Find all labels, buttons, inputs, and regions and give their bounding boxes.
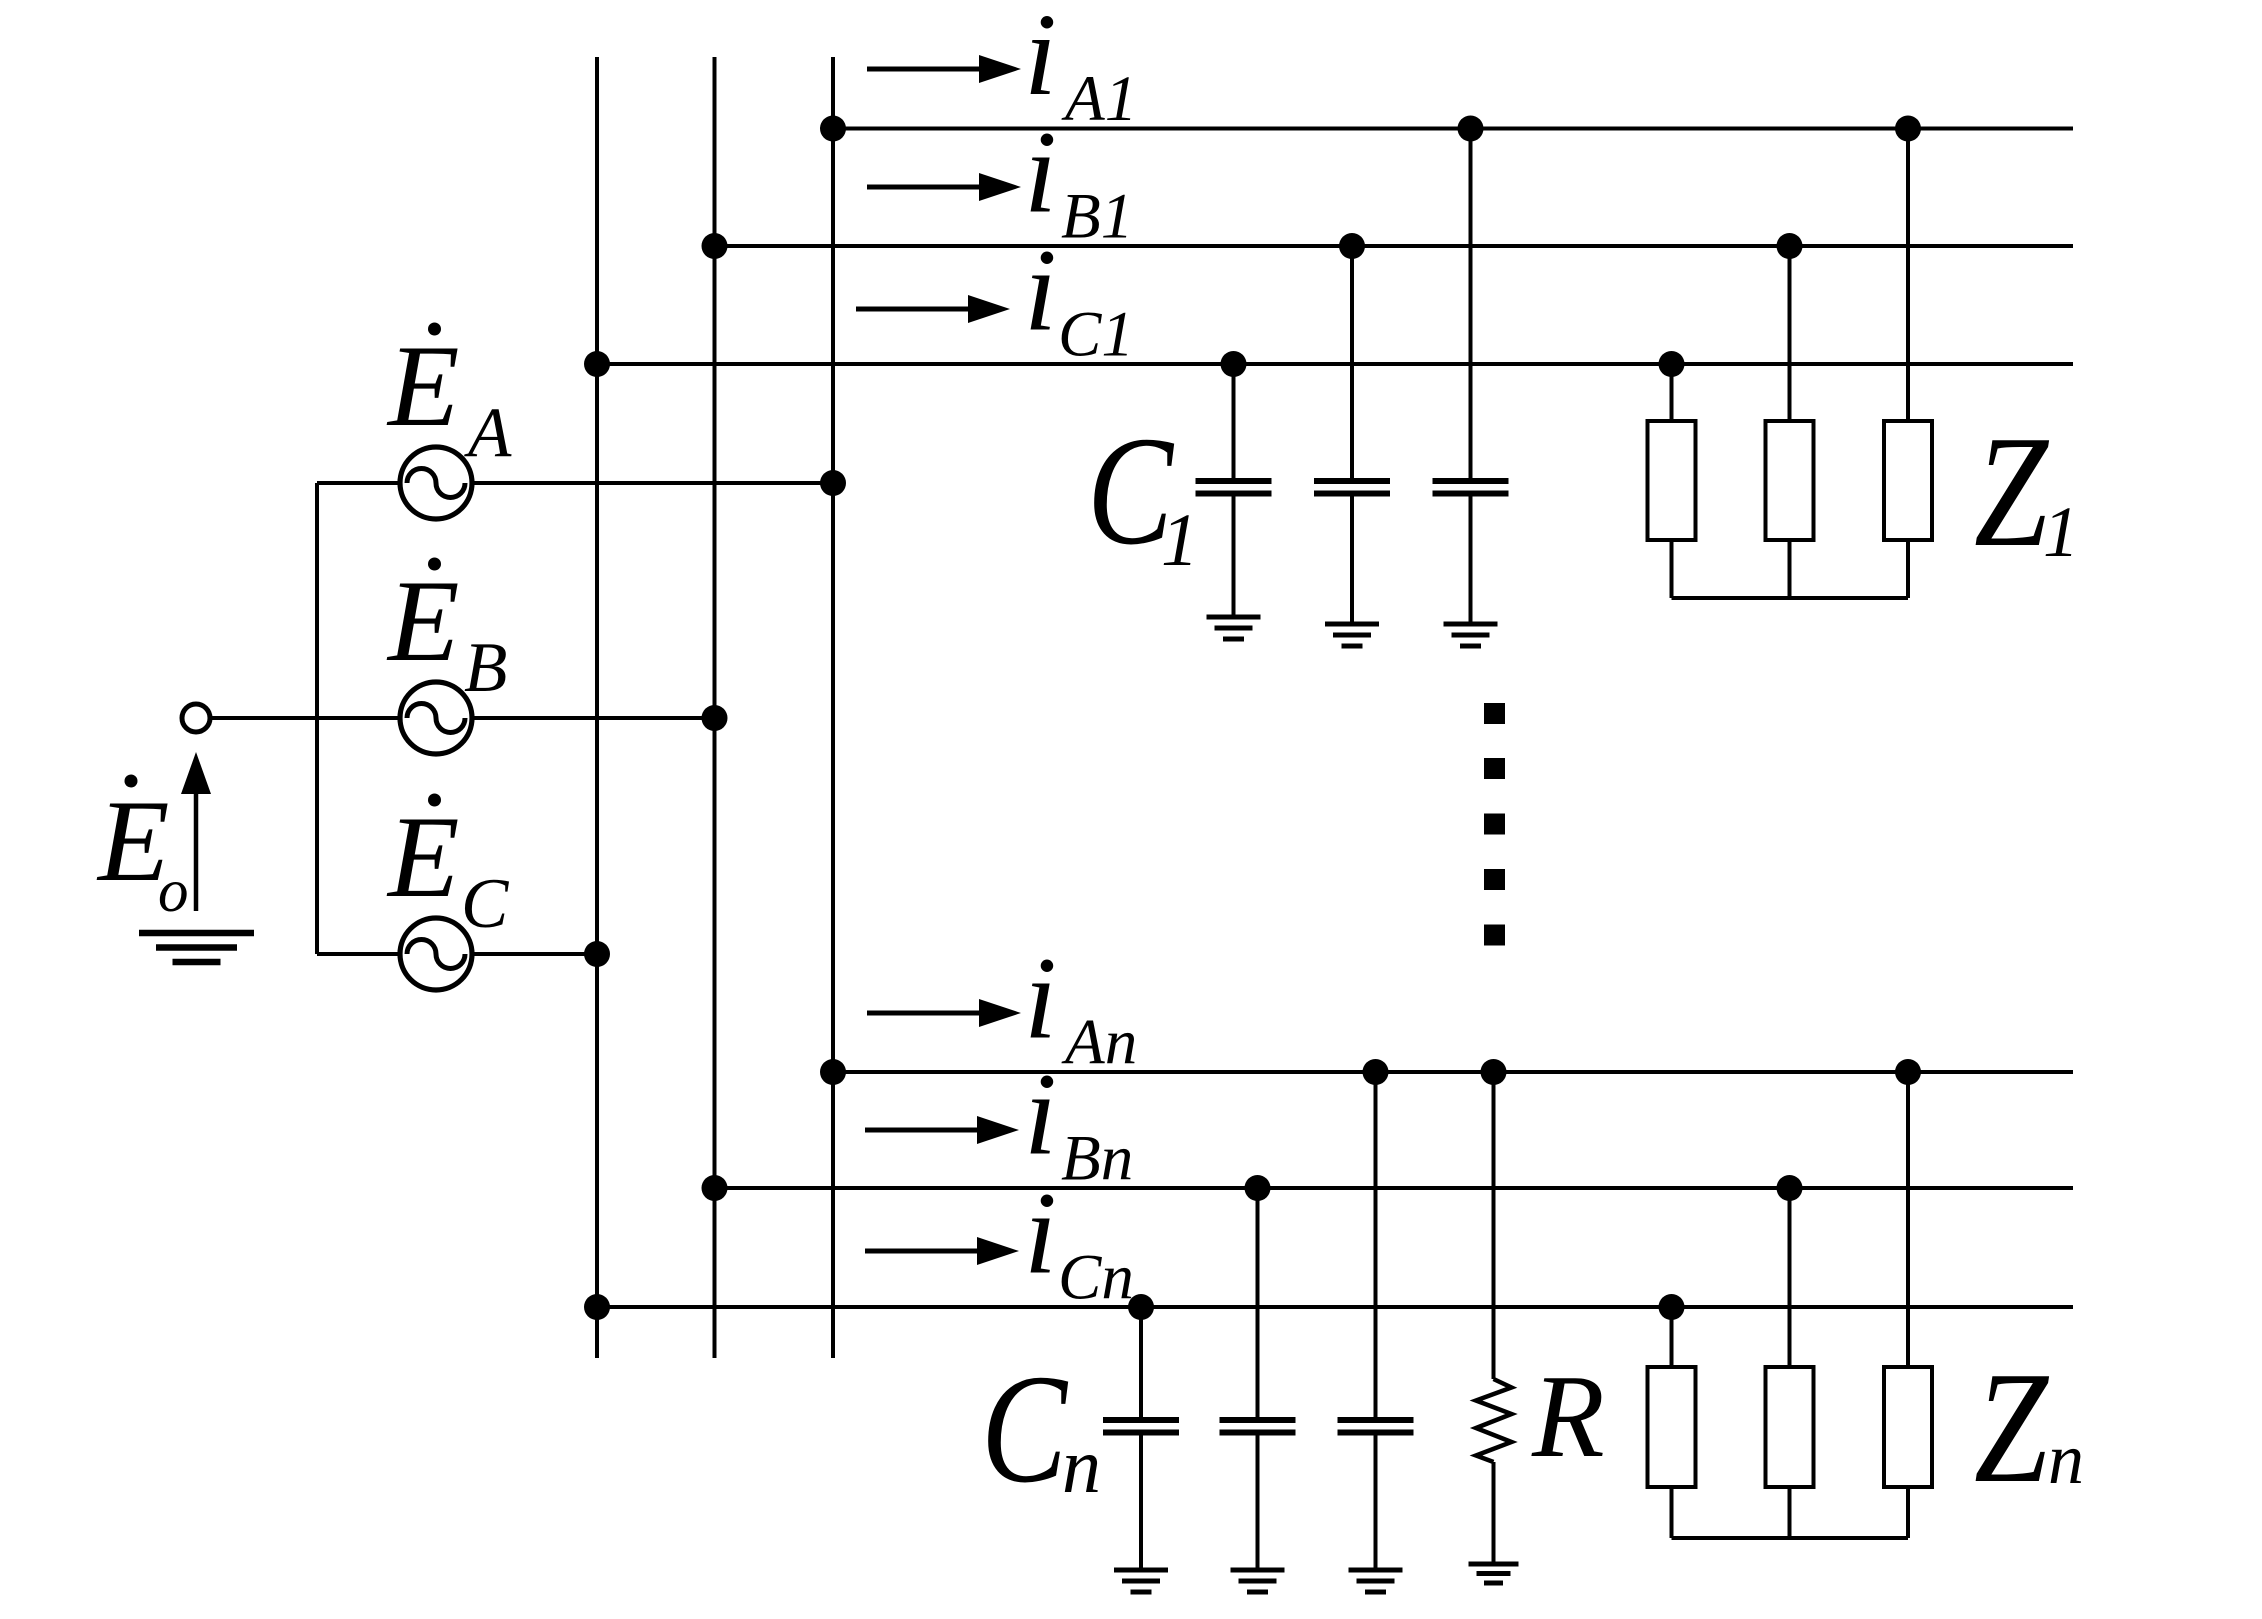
- svg-text:i: i: [1024, 107, 1057, 238]
- svg-text:i: i: [1024, 225, 1057, 356]
- svg-text:o: o: [158, 858, 189, 925]
- svg-text:Z: Z: [1974, 1338, 2050, 1516]
- svg-text:C1: C1: [1058, 299, 1134, 371]
- svg-text:C: C: [981, 1342, 1069, 1515]
- svg-text:E: E: [386, 322, 459, 451]
- svg-text:R: R: [1531, 1350, 1605, 1482]
- svg-text:n: n: [2048, 1419, 2084, 1499]
- svg-text:1: 1: [2043, 492, 2079, 572]
- svg-text:E: E: [386, 557, 459, 686]
- svg-text:Z: Z: [1974, 402, 2050, 580]
- svg-text:B: B: [464, 629, 507, 707]
- svg-text:E: E: [386, 793, 459, 922]
- svg-text:i: i: [1024, 933, 1057, 1064]
- svg-text:A1: A1: [1061, 63, 1137, 135]
- svg-text:n: n: [1062, 1422, 1101, 1509]
- svg-text:An: An: [1061, 1007, 1137, 1079]
- svg-text:Cn: Cn: [1058, 1242, 1134, 1314]
- svg-text:A: A: [464, 394, 512, 472]
- svg-text:i: i: [1024, 1049, 1057, 1180]
- svg-text:i: i: [1024, 0, 1057, 120]
- svg-text:Bn: Bn: [1061, 1123, 1133, 1195]
- svg-text:B1: B1: [1061, 181, 1133, 253]
- svg-text:C: C: [461, 865, 510, 943]
- svg-text:i: i: [1024, 1168, 1057, 1299]
- svg-text:1: 1: [1161, 499, 1199, 582]
